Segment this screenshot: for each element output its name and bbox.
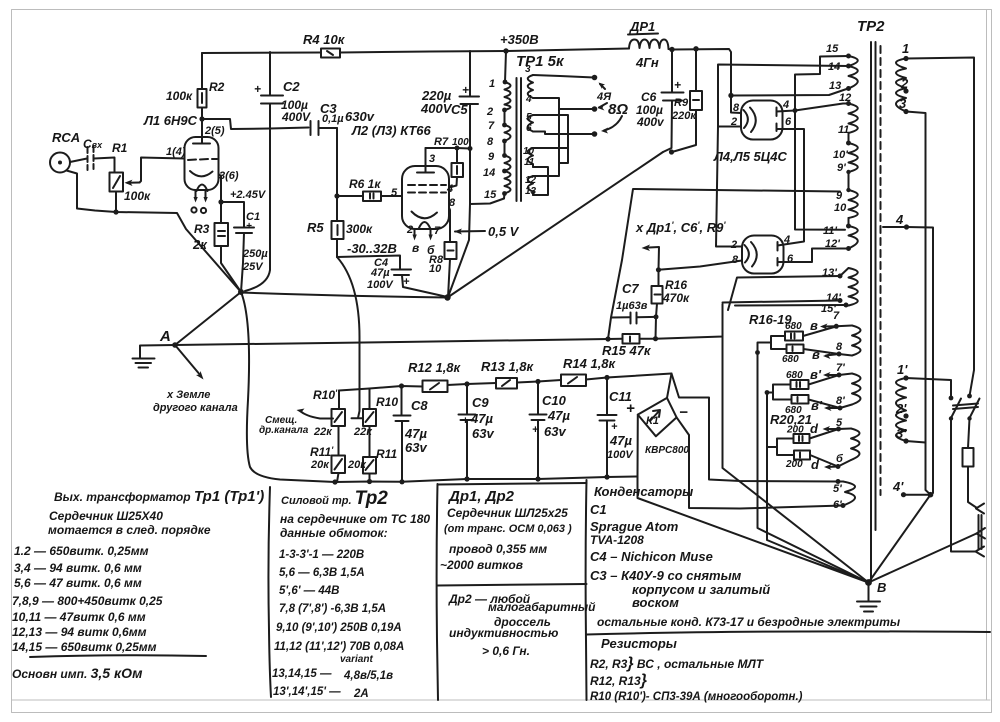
capacitor C11 <box>598 378 636 478</box>
transformer ТР1 primary winding <box>502 51 510 199</box>
svg-text:1-3-3'-1 — 220В: 1-3-3'-1 — 220В <box>279 549 364 561</box>
svg-text:400V: 400V <box>420 101 453 116</box>
capacitor C5 <box>420 51 479 297</box>
svg-text:8: 8 <box>732 254 739 266</box>
heater terminal d 5 <box>810 417 851 436</box>
svg-text:1: 1 <box>489 78 495 90</box>
svg-text:10: 10 <box>429 263 442 275</box>
svg-text:Л4,Л5 5Ц4С: Л4,Л5 5Ц4С <box>713 149 787 164</box>
svg-text:22к: 22к <box>313 426 333 438</box>
resistor R13 <box>481 359 535 389</box>
svg-text:2: 2 <box>406 224 413 236</box>
text block capacitors <box>590 484 901 629</box>
svg-text:RCA: RCA <box>52 130 80 145</box>
svg-text:Сердечник ШЛ25х25: Сердечник ШЛ25х25 <box>447 506 568 520</box>
svg-text:1.2 — 650витк. 0,25мм: 1.2 — 650витк. 0,25мм <box>14 544 149 558</box>
resistor R20 200 <box>786 425 839 444</box>
svg-text:ДР1: ДР1 <box>629 19 655 34</box>
svg-text:63v: 63v <box>472 426 494 441</box>
wire RCA shell ground loop <box>67 171 242 293</box>
text block resistors <box>590 636 803 703</box>
svg-text:7: 7 <box>488 120 495 132</box>
svg-text:100: 100 <box>452 137 469 148</box>
capacitor C4 <box>367 257 448 297</box>
svg-text:4: 4 <box>782 99 789 111</box>
output terminals 4Ω / 8Ω <box>592 75 629 137</box>
ТР2 pin 4' tap <box>838 479 933 506</box>
wire 4' node diagonal to B <box>869 495 931 583</box>
svg-text:1': 1' <box>897 362 908 377</box>
svg-text:+: + <box>532 424 539 436</box>
svg-text:R10: R10 <box>376 395 398 409</box>
svg-text:(от транс. ОСМ 0,063 ): (от транс. ОСМ 0,063 ) <box>444 523 572 535</box>
svg-text:2: 2 <box>486 106 493 118</box>
svg-text:+: + <box>611 421 618 433</box>
tube Л1 labels <box>143 113 239 182</box>
svg-text:8': 8' <box>836 395 845 407</box>
svg-text:C10: C10 <box>542 393 567 408</box>
bias tap wire with arrow to other channel <box>642 245 660 270</box>
wire К1 top vertex to bus <box>607 374 672 398</box>
capacitor Cвх (dashed input cap) <box>83 137 103 170</box>
wire R2 to anode node <box>199 53 204 122</box>
resistor R12 <box>408 360 462 392</box>
svg-text:7: 7 <box>434 225 441 237</box>
svg-text:х Земле: х Земле <box>166 389 210 401</box>
capacitor C6 <box>636 50 684 153</box>
heater terminal в 7 <box>810 310 852 333</box>
svg-text:C7: C7 <box>622 281 639 296</box>
svg-text:2: 2 <box>900 76 909 91</box>
svg-text:индуктивностью: индуктивностью <box>449 626 558 640</box>
wire node B to plug middle prong <box>869 534 977 583</box>
resistor R3 <box>192 202 241 292</box>
winding 5' 6' terminals <box>833 479 846 511</box>
svg-text:15: 15 <box>826 43 839 55</box>
filter top bus <box>339 375 610 391</box>
svg-text:200: 200 <box>785 459 803 470</box>
label х Др1 C6 R9 <box>635 220 726 235</box>
svg-text:в: в <box>812 347 820 362</box>
svg-text:9,10 (9',10') 250В 0,19А: 9,10 (9',10') 250В 0,19А <box>276 622 402 634</box>
svg-text:2к: 2к <box>192 237 208 252</box>
svg-text:R4 10к: R4 10к <box>303 32 346 47</box>
svg-text:~2000 витков: ~2000 витков <box>440 558 523 572</box>
heater terminal в' 7' <box>810 362 852 382</box>
bias feed to wipers <box>297 409 364 419</box>
svg-text:в: в <box>810 318 818 333</box>
wire bias line from winding to C7 node <box>608 189 840 339</box>
wire К1 left vertex down <box>637 415 639 477</box>
svg-text:в': в' <box>810 367 822 382</box>
lower bus <box>332 474 637 484</box>
svg-text:R11: R11 <box>376 447 397 461</box>
bridge rectifier К1 <box>638 398 690 456</box>
text block Др1 Др2 <box>440 488 596 658</box>
ТР1 core <box>517 78 522 201</box>
capacitor C2 <box>245 52 311 291</box>
svg-text:9: 9 <box>836 190 843 202</box>
svg-text:4: 4 <box>895 212 904 227</box>
svg-text:R14 1,8к: R14 1,8к <box>563 356 617 371</box>
svg-text:> 0,6 Гн.: > 0,6 Гн. <box>482 644 530 658</box>
svg-text:C4 – Nichicon Muse: C4 – Nichicon Muse <box>590 549 713 564</box>
svg-text:другого канала: другого канала <box>153 402 238 414</box>
svg-text:+: + <box>403 276 410 288</box>
svg-text:9: 9 <box>488 151 495 163</box>
resistor R18 680 <box>782 345 839 366</box>
svg-text:R1: R1 <box>112 141 128 155</box>
svg-text:250µ: 250µ <box>242 248 268 260</box>
resistor R4 <box>303 32 346 58</box>
resistor R8 <box>429 197 457 298</box>
wire primary pin1' to switch <box>906 378 951 398</box>
ТР2 core <box>871 42 876 580</box>
svg-text:малогабаритный: малогабаритный <box>488 600 596 614</box>
main cathode junction node <box>241 293 451 301</box>
svg-text:14,15 — 650витк 0,25мм: 14,15 — 650витк 0,25мм <box>12 640 157 654</box>
wire cathode to node <box>218 174 223 205</box>
R17 R18 common to ground <box>755 336 786 355</box>
svg-text:R12, R13}: R12, R13} <box>590 672 647 689</box>
wire winding 14 to Л4 pin2 and Л5 pin2 <box>716 65 849 247</box>
svg-text:х Др1', C6', R9': х Др1', C6', R9' <box>635 220 726 235</box>
svg-text:К1: К1 <box>646 415 659 427</box>
svg-text:8: 8 <box>449 197 456 209</box>
svg-text:Др1, Др2: Др1, Др2 <box>447 488 515 505</box>
svg-text:R10': R10' <box>313 388 338 402</box>
svg-text:47µ: 47µ <box>470 411 493 426</box>
svg-text:20к: 20к <box>310 459 330 471</box>
svg-text:R16: R16 <box>665 278 687 292</box>
svg-text:630v: 630v <box>345 109 375 124</box>
svg-text:7,8 (7',8') -6,3В 1,5А: 7,8 (7',8') -6,3В 1,5А <box>279 603 386 615</box>
RCA label <box>52 130 80 145</box>
svg-text:R5: R5 <box>307 220 324 235</box>
wire Л5 pin6 to winding 12' <box>778 249 849 263</box>
svg-text:Л1 6Н9С: Л1 6Н9С <box>143 113 198 128</box>
potentiometer R11' <box>310 426 345 482</box>
label Смещ др.канала <box>259 415 309 436</box>
ТР2 screen (dashed) <box>880 46 882 495</box>
tube Л4 5Ц4С rectifier <box>730 99 792 140</box>
ТР2 secondary column windings <box>843 56 861 506</box>
svg-text:4Гн: 4Гн <box>635 55 659 70</box>
svg-text:7': 7' <box>836 362 845 374</box>
text block Тр2 winding data <box>272 488 430 700</box>
svg-text:+: + <box>254 82 261 96</box>
wire top B+ rail <box>202 48 629 53</box>
svg-text:3,4 — 94 витк. 0,6 мм: 3,4 — 94 витк. 0,6 мм <box>14 561 142 575</box>
svg-text:400v: 400v <box>636 115 665 129</box>
capacitor C1 <box>221 189 268 292</box>
potentiometer R10 <box>353 389 398 439</box>
label к земле другого канала with arrow <box>153 345 238 414</box>
ТР2 primary upper winding <box>896 41 909 114</box>
svg-text:Силовой тр. Тр2: Силовой тр. Тр2 <box>281 488 388 509</box>
svg-text:13: 13 <box>829 80 841 92</box>
wire primary pin3' stub <box>906 441 926 443</box>
svg-text:R11': R11' <box>310 445 334 459</box>
svg-text:13',14',15' —: 13',14',15' — <box>273 686 341 698</box>
svg-text:1(4): 1(4) <box>166 146 186 158</box>
wire К1 AC to winding 5' <box>672 374 839 482</box>
svg-text:5': 5' <box>833 483 842 495</box>
node A with ground <box>133 328 178 368</box>
wire input cap to grid <box>94 158 115 173</box>
svg-text:3: 3 <box>899 96 907 111</box>
mains plug prongs <box>976 504 986 557</box>
svg-text:+: + <box>462 415 469 427</box>
svg-text:6: 6 <box>526 123 532 134</box>
resistor R16 <box>652 267 691 319</box>
wire winding 13' to left <box>728 276 840 310</box>
svg-text:47µ: 47µ <box>547 408 570 423</box>
svg-text:63v: 63v <box>544 424 566 439</box>
wire ТР1 bottom to C5 line <box>470 199 504 205</box>
svg-text:6': 6' <box>833 499 842 511</box>
wire ДР1 to rectifier corner <box>669 46 732 95</box>
R20 R21 common to ground <box>767 439 794 456</box>
capacitor C10 <box>530 382 571 480</box>
svg-text:300к: 300к <box>346 222 373 236</box>
wire bias node to Л5 pin8 <box>659 261 743 270</box>
label Л4,Л5 5Ц4С <box>713 149 787 164</box>
svg-text:C9: C9 <box>472 395 489 410</box>
svg-text:100V: 100V <box>367 279 394 291</box>
wire К1 right vertex to winding 6' <box>677 417 843 508</box>
svg-text:25V: 25V <box>242 261 264 273</box>
svg-text:Сердечник Ш25Х40: Сердечник Ш25Х40 <box>49 509 163 523</box>
svg-text:12,13 — 94 витк 0,6мм: 12,13 — 94 витк 0,6мм <box>12 625 147 639</box>
svg-text:остальные конд. К73-17 и безро: остальные конд. К73-17 и безродные элект… <box>597 615 901 629</box>
svg-text:10: 10 <box>834 202 847 214</box>
svg-text:R12 1,8к: R12 1,8к <box>408 360 462 375</box>
svg-text:Sprague Atom: Sprague Atom <box>590 519 679 534</box>
svg-text:4: 4 <box>446 183 453 195</box>
svg-text:C5: C5 <box>451 102 468 117</box>
potentiometer R10' <box>313 388 345 438</box>
svg-text:C6: C6 <box>641 90 657 104</box>
label +350В <box>500 32 539 47</box>
svg-text:680: 680 <box>786 370 803 381</box>
resistor R14 <box>561 356 617 386</box>
wire A-bus continuing right <box>656 304 723 339</box>
svg-text:5: 5 <box>526 112 532 123</box>
svg-text:КВРС800: КВРС800 <box>645 445 689 456</box>
svg-text:+2.45V: +2.45V <box>230 189 267 201</box>
capacitor C3 <box>311 101 375 135</box>
wire switch left pole to plug <box>951 419 976 552</box>
svg-text:2(5): 2(5) <box>204 125 225 137</box>
resistor R17 680 <box>785 321 836 341</box>
svg-text:8: 8 <box>487 136 494 148</box>
svg-text:3: 3 <box>525 64 531 75</box>
svg-text:4: 4 <box>525 94 532 105</box>
svg-text:Вых. трансформатор Тр1 (Тр1'): Вых. трансформатор Тр1 (Тр1') <box>54 488 264 505</box>
svg-text:10': 10' <box>833 149 848 161</box>
svg-text:−: − <box>679 404 688 421</box>
svg-text:400V: 400V <box>281 110 311 124</box>
svg-text:1µ63в: 1µ63в <box>616 300 648 312</box>
svg-text:6: 6 <box>785 116 792 128</box>
wire filter minus to B <box>638 477 869 583</box>
ТР2 pin 4 tap <box>883 212 933 493</box>
resistor R15 <box>602 317 658 358</box>
wire winding 14' 15' to left vertical <box>723 301 847 306</box>
svg-text:Cвх: Cвх <box>83 137 103 151</box>
svg-text:5,6 — 6,3В 1,5А: 5,6 — 6,3В 1,5А <box>279 567 365 579</box>
svg-text:мотается в след. порядке: мотается в след. порядке <box>48 523 211 537</box>
svg-text:B: B <box>877 580 886 595</box>
fuse <box>963 419 978 509</box>
svg-text:680: 680 <box>785 321 802 332</box>
svg-text:8Ω: 8Ω <box>608 101 628 118</box>
svg-text:47µ: 47µ <box>609 433 632 448</box>
svg-text:Резисторы: Резисторы <box>601 636 677 651</box>
svg-text:5,6 — 47 витк. 0,6 мм: 5,6 — 47 витк. 0,6 мм <box>14 576 142 590</box>
svg-text:0,5 V: 0,5 V <box>488 224 520 239</box>
svg-text:11: 11 <box>838 124 849 136</box>
svg-text:C3 – К40У-9 со снятым: C3 – К40У-9 со снятым <box>590 568 742 583</box>
svg-text:5: 5 <box>391 187 398 199</box>
heater terminal в 8 <box>812 341 852 362</box>
svg-text:100V: 100V <box>607 449 634 461</box>
wire R5 bottom to C4 and bias feed <box>337 256 400 419</box>
svg-text:220к: 220к <box>671 110 697 122</box>
tube Л5 5Ц4С rectifier <box>730 234 794 274</box>
svg-text:12: 12 <box>839 92 851 104</box>
resistor R19a 680 <box>786 370 839 389</box>
svg-text:R7: R7 <box>434 136 449 148</box>
wire junction curve down to lower bus <box>241 292 335 482</box>
svg-text:470к: 470к <box>662 291 690 305</box>
potentiometer R11 <box>347 426 397 482</box>
svg-text:d: d <box>811 457 820 472</box>
svg-text:C8: C8 <box>411 398 428 413</box>
capacitor C7 <box>611 281 656 324</box>
wire bias network commons to B <box>758 353 869 583</box>
wire C3 to R6/R5 node <box>334 128 339 221</box>
wire A bus to right <box>175 339 608 345</box>
svg-text:ТР2: ТР2 <box>857 18 885 35</box>
svg-text:13': 13' <box>822 267 837 279</box>
ТР2 secondary pin dots and links <box>838 54 852 308</box>
svg-text:200: 200 <box>786 425 804 436</box>
svg-text:+: + <box>246 221 252 232</box>
svg-text:R6 1к: R6 1к <box>349 177 381 191</box>
svg-text:R10 (R10')- СП3-39А (многообор: R10 (R10')- СП3-39А (многооборотн.) <box>590 691 803 703</box>
svg-text:680: 680 <box>782 354 799 365</box>
wire A-bus ground return to B <box>723 337 869 583</box>
svg-text:воском: воском <box>632 595 679 610</box>
svg-text:др.канала: др.канала <box>259 425 309 436</box>
svg-text:20к: 20к <box>347 459 367 471</box>
svg-text:R3: R3 <box>194 222 210 236</box>
label R20,21 <box>770 412 812 427</box>
svg-text:R9: R9 <box>674 97 689 109</box>
tube Л2 КТ66 beam tetrode <box>402 148 449 257</box>
ТР2 secondary pin labels <box>821 43 851 315</box>
svg-text:2': 2' <box>895 401 907 416</box>
RCA input jack <box>50 153 87 173</box>
resistor R5 <box>307 220 397 257</box>
svg-text:variant: variant <box>340 654 373 665</box>
svg-text:2А: 2А <box>353 688 369 700</box>
svg-text:8: 8 <box>836 341 843 353</box>
svg-text:Основн имп. 3,5 кОм: Основн имп. 3,5 кОм <box>12 665 143 681</box>
wire Л4 pin6 to Л5 pin4 <box>777 129 805 246</box>
svg-text:R2, R3} ВС , остальные МЛТ: R2, R3} ВС , остальные МЛТ <box>590 655 765 672</box>
resistor R19b 680 <box>785 395 840 416</box>
svg-text:провод 0,355 мм: провод 0,355 мм <box>449 542 547 556</box>
wire winding 15 loop <box>795 56 849 230</box>
svg-text:14: 14 <box>828 61 840 73</box>
transformer ТР2 label <box>857 18 885 35</box>
R19 common to ground <box>765 385 792 400</box>
svg-text:в: в <box>412 241 419 255</box>
svg-text:R13 1,8к: R13 1,8к <box>481 359 535 374</box>
mains switch <box>949 394 980 421</box>
transformer ТР1 label <box>516 53 565 70</box>
svg-text:2: 2 <box>730 239 737 251</box>
resistor R7 <box>426 136 471 195</box>
svg-text:4': 4' <box>892 479 904 494</box>
svg-text:0,1µ: 0,1µ <box>322 113 344 125</box>
svg-text:ТР1 5к: ТР1 5к <box>516 53 565 70</box>
underline Тр1 list <box>30 655 206 657</box>
svg-text:5: 5 <box>836 417 843 429</box>
svg-text:47µ: 47µ <box>370 267 390 279</box>
wire R1 bottom to input ground node <box>113 192 118 215</box>
svg-text:данные обмоток:: данные обмоток: <box>280 526 388 540</box>
svg-text:12': 12' <box>825 238 840 250</box>
node B with ground <box>857 579 886 611</box>
ТР1 secondary strapping wires <box>533 75 594 195</box>
svg-text:+: + <box>626 400 635 417</box>
resistor R6 <box>337 177 402 201</box>
capacitor C8 <box>394 386 429 482</box>
svg-text:100к: 100к <box>166 89 193 103</box>
svg-text:3: 3 <box>429 153 435 165</box>
svg-text:11,12 (11',12') 70В 0,08А: 11,12 (11',12') 70В 0,08А <box>274 641 404 653</box>
svg-text:11': 11' <box>823 225 837 237</box>
resistor R1 (volume pot) <box>110 141 185 203</box>
label R16-19 <box>749 312 792 327</box>
wire rail corner into Л4 pin8 <box>728 93 741 113</box>
svg-text:9': 9' <box>837 162 846 174</box>
svg-text:на сердечнике от ТС 180: на сердечнике от ТС 180 <box>280 512 430 526</box>
wire Л4 node to winding 13 <box>731 89 848 96</box>
wire C6 bottom diagonal to cathode junction <box>448 152 664 298</box>
svg-text:в': в' <box>811 398 823 413</box>
svg-text:Л2 (Л3) КТ66: Л2 (Л3) КТ66 <box>351 123 432 138</box>
svg-text:15: 15 <box>484 189 497 201</box>
label 0,5 V with arrow <box>454 224 520 239</box>
ТР1 secondary winding <box>523 64 537 197</box>
heater terminal d 6 <box>811 453 851 472</box>
svg-text:TVA-1208: TVA-1208 <box>590 533 644 547</box>
svg-text:100к: 100к <box>124 189 151 203</box>
text block Тр1 winding data <box>12 488 264 681</box>
svg-text:13,14,15 —: 13,14,15 — <box>272 668 332 680</box>
svg-text:1: 1 <box>902 41 909 56</box>
svg-text:10,11 — 47витк 0,6 мм: 10,11 — 47витк 0,6 мм <box>12 610 146 624</box>
svg-text:d: d <box>810 421 819 436</box>
junction node left <box>238 289 244 295</box>
svg-text:6: 6 <box>787 253 794 265</box>
svg-text:R2: R2 <box>209 80 225 94</box>
